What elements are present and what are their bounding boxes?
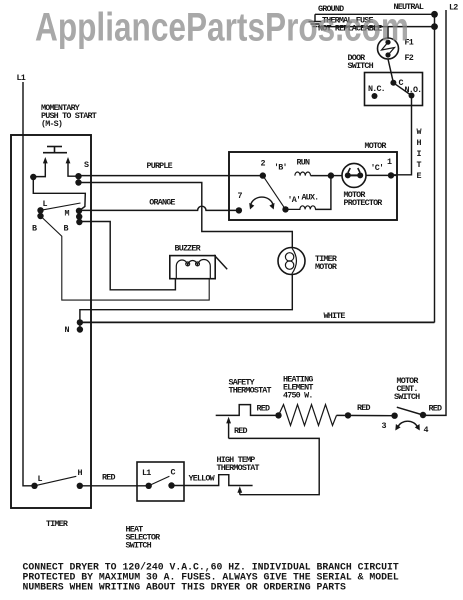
safety thermostat [216,405,279,416]
svg-text:3: 3 [382,421,387,431]
svg-text:NUMBERS WHEN WRITING ABOUT THI: NUMBERS WHEN WRITING ABOUT THIS DRYER OR… [23,582,346,593]
svg-text:ORANGE: ORANGE [149,198,175,208]
push-to-start right arrow [66,157,79,176]
svg-text:L2: L2 [449,3,458,13]
svg-text:RED: RED [102,473,115,483]
svg-text:S: S [84,160,89,170]
label TIMER MOTOR [315,254,338,272]
svg-text:SWITCH: SWITCH [348,61,374,71]
svg-text:'A': 'A' [288,195,301,205]
timer terminal S lower dot [75,179,81,185]
svg-text:T: T [417,160,422,170]
timer bottom switch arm [35,476,77,486]
wire from push-to-start left contact down to M pivot [33,177,85,211]
svg-text:L1: L1 [17,73,26,83]
wire timer motor return to timer terminal N [80,275,292,330]
door switch box [365,73,423,106]
wire fuse F2 to door switch common [388,59,393,83]
junction dot heating element right [345,412,351,418]
svg-text:N.O.: N.O. [405,85,422,95]
motor cent. switch contact 4 [420,412,426,418]
svg-text:RED: RED [257,404,270,414]
wire thermal fuse line [318,26,435,28]
door switch common contact C [390,80,396,86]
safety thermostat feed arrow [226,417,231,439]
label DOOR SWITCH [348,53,374,71]
svg-text:N.C.: N.C. [368,84,385,94]
buzzer box [170,256,215,279]
motor protector [342,163,366,187]
motor contact B dot [260,172,266,178]
high temp thermostat output arrow [237,486,242,494]
motor box [229,152,397,220]
svg-text:F2: F2 [405,53,414,63]
motor cent. switch arm [397,407,423,415]
push-to-start left contact [30,174,36,180]
junction dot run/aux windings [328,172,334,178]
thermal fuse F1/F2 [378,38,399,59]
wire L2 vertical down right side to motor cent. switch terminal 4 [423,10,446,415]
motor terminal 1 dot [388,172,394,178]
timer bottom contact L dot [31,483,37,489]
timer terminal N junction dot white line [77,319,83,325]
wire junction to motor protector [331,175,342,177]
wire fuse stem from thermal fuse line [387,27,389,38]
svg-text:B: B [32,224,37,234]
svg-text:H: H [78,468,83,478]
wire from S lower dot to timer motor feed [79,183,293,248]
svg-text:L1: L1 [142,468,151,478]
heat selector switch box [137,462,184,501]
wire neutral/ground horizontal top [315,13,435,15]
timer contact L lower dot [37,213,43,219]
timer switch arm L to M [41,203,81,210]
wire white neutral vertical [434,14,436,322]
svg-text:4750 W.: 4750 W. [283,391,313,401]
timer switch arm B-B to buzzer [41,216,210,300]
svg-text:RED: RED [234,426,247,436]
net WHITE vertical label [417,127,423,181]
label MOMENTARY PUSH TO START (M-S) [41,103,97,129]
push-to-start button actuator [43,147,67,153]
wire ORANGE from M to motor terminal 7 with crossover hump [79,206,239,210]
label MOTOR PROTECTOR [344,190,384,208]
svg-text:H: H [417,138,422,148]
heating element resistor [279,405,337,426]
label MOTOR CENT. SWITCH [394,376,420,402]
svg-text:1: 1 [387,157,392,167]
timer terminal M dots [76,208,83,226]
svg-text:PROTECTOR: PROTECTOR [344,198,384,208]
svg-text:7: 7 [238,191,243,201]
buzzer striker [214,255,227,269]
svg-text:B: B [64,224,69,234]
push-to-start left arrow [33,157,47,177]
svg-text:4: 4 [424,425,429,435]
wire L1 supply vertical into timer to bottom L contact [23,82,35,486]
motor terminal 7 dot [236,207,242,213]
wire run winding to junction [311,175,331,177]
door switch N.C. contact [372,93,378,99]
motor contact A dot [282,206,288,212]
svg-text:RED: RED [429,404,442,414]
svg-text:WHITE: WHITE [324,311,346,321]
timer terminal N dot [77,326,83,332]
motor switch arm B to A [263,176,286,210]
svg-text:W: W [417,127,423,137]
svg-text:L: L [38,474,43,484]
wire motor protector to terminal 1 [366,174,397,176]
svg-text:MOTOR: MOTOR [315,262,338,272]
junction dot heating element left [275,412,281,418]
svg-text:THERMOSTAT: THERMOSTAT [229,386,272,396]
high temp thermostat [173,475,253,486]
label SAFETY THERMOSTAT [229,378,272,396]
ground symbol [309,14,322,26]
wire aux winding to junction [315,176,331,210]
note connection instructions paragraph [23,562,399,593]
svg-text:MOTOR: MOTOR [365,141,388,151]
svg-text:L: L [43,199,48,209]
svg-text:'B': 'B' [274,163,287,173]
svg-text:TIMER: TIMER [46,519,69,529]
wire WHITE neutral line [80,321,435,323]
svg-text:YELLOW: YELLOW [189,474,216,484]
svg-text:SWITCH: SWITCH [126,541,152,551]
buzzer coil [176,260,210,279]
label HIGH TEMP THERMOSTAT [217,455,260,473]
timer motor symbol [278,248,305,275]
wire thermostat link high-temp to safety [229,438,320,494]
svg-text:THERMOSTAT: THERMOSTAT [217,463,260,473]
timer bottom contact H dot [77,483,83,489]
label HEAT SELECTOR SWITCH [126,525,162,551]
heat selector contact L1 dot [146,483,152,489]
door switch arm C to N.O. [393,83,411,96]
svg-text:E: E [417,171,422,181]
timer box [11,135,91,508]
wire RED timer H to heat selector [80,485,149,487]
timer contact L upper dot [37,207,43,213]
svg-text:SWITCH: SWITCH [394,392,420,402]
svg-text:N: N [65,325,70,335]
wire door switch N.O. down to motor terminal 1 (white) [391,96,412,175]
svg-text:BUZZER: BUZZER [175,244,202,254]
junction dot thermal fuse line at white vertical [431,23,438,30]
heat selector switch arm [149,476,170,486]
svg-text:'C': 'C' [371,163,384,173]
svg-text:PURPLE: PURPLE [147,161,173,171]
svg-text:RUN: RUN [297,158,310,168]
svg-text:RED: RED [357,403,370,413]
wire PURPLE from S to motor contact B [79,175,263,177]
motor cent. switch contact 3 [391,413,397,419]
label HEATING ELEMENT 4750 W. [283,375,313,401]
svg-text:2: 2 [261,159,266,169]
run winding coil [295,172,311,176]
motor cent. switch arc arrow [395,421,420,430]
wire M lower dot to buzzer left lead [79,222,175,290]
aux winding coil [286,206,316,210]
svg-text:M: M [65,209,70,219]
wire heating element to cent switch 3 [337,414,395,416]
svg-text:AppliancePartsPros.com: AppliancePartsPros.com [35,6,409,50]
svg-text:C: C [171,468,176,478]
junction dot neutral/white vertical at top [431,11,438,18]
motor centrifugal start switch arc arrow [249,197,274,209]
svg-text:I: I [417,149,422,159]
timer terminal S upper dot [75,173,81,179]
svg-text:AUX.: AUX. [302,193,319,203]
heat selector contact C dot [168,482,174,488]
svg-text:(M-S): (M-S) [41,119,62,129]
door switch N.O. contact [409,93,415,99]
